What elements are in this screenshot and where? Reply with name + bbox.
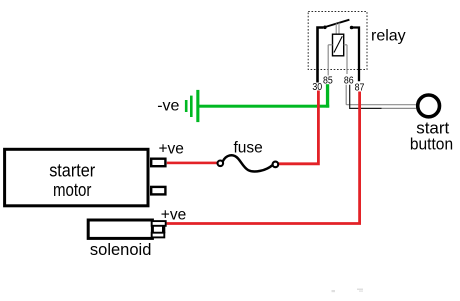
solenoid terminal bottom tab bbox=[152, 233, 165, 238]
starter motor terminal top bbox=[151, 159, 165, 167]
fuse F1 element (S-curve) bbox=[223, 155, 273, 171]
relay pin 85 lead wire bbox=[327, 45, 329, 76]
svg-text:-ve: -ve bbox=[157, 98, 179, 115]
svg-text:fuse: fuse bbox=[234, 139, 263, 156]
starter motor M1 box bbox=[5, 149, 148, 206]
svg-text:motor: motor bbox=[53, 179, 92, 200]
svg-text:relay: relay bbox=[371, 28, 406, 45]
solenoid box bbox=[88, 220, 152, 238]
red wire: starter +ve to fuse bbox=[167, 162, 218, 165]
relay armature link lines bbox=[335, 23, 337, 34]
relay switch movable arm bbox=[326, 20, 350, 27]
svg-text:button: button bbox=[410, 135, 453, 154]
red wire: relay pin 87 down and across to solenoid bbox=[167, 92, 360, 224]
relay coil diagonal bbox=[334, 36, 342, 52]
relay switch contact dot (pin 87 side) bbox=[350, 26, 354, 30]
wire lower run to start button (gray part) bbox=[382, 107, 416, 109]
relay coil terminal stub left bbox=[328, 44, 332, 46]
relay coil K1 bbox=[333, 34, 344, 56]
svg-text:+ve: +ve bbox=[159, 140, 184, 157]
wire pin 86 to start button (upper) bbox=[346, 85, 416, 105]
svg-text:starter: starter bbox=[49, 159, 95, 180]
svg-text:solenoid: solenoid bbox=[90, 240, 151, 259]
relay pin 87 lead bbox=[352, 28, 359, 82]
starter motor terminal bottom bbox=[151, 187, 165, 195]
solenoid terminal right bar bbox=[162, 225, 165, 233]
relay coil terminal stub right bbox=[344, 44, 347, 46]
fuse F1 right terminal circle bbox=[273, 162, 279, 168]
relay U1 dashed enclosure bbox=[308, 12, 367, 70]
solenoid terminal top tab bbox=[152, 221, 166, 226]
svg-text:86: 86 bbox=[344, 75, 354, 86]
ground symbol -ve (green bars) bbox=[185, 90, 200, 122]
faint watermark remnant bbox=[332, 289, 364, 293]
svg-text:+ve: +ve bbox=[161, 206, 186, 223]
relay pin 30 lead (switch common) bbox=[318, 28, 324, 83]
relay switch contact dot (pin 30 side) bbox=[323, 26, 327, 30]
wire lower run to start button (black part) bbox=[350, 85, 382, 109]
green ground wire vertical riser to pin 85 bbox=[326, 84, 329, 107]
red wire: fuse to relay pin 30 riser bbox=[278, 91, 318, 164]
relay pin 86 lead wire (upper stub) bbox=[346, 45, 348, 74]
start button S1 bbox=[418, 95, 440, 117]
fuse F1 left terminal circle bbox=[218, 161, 224, 167]
green ground wire horizontal bbox=[199, 105, 329, 108]
